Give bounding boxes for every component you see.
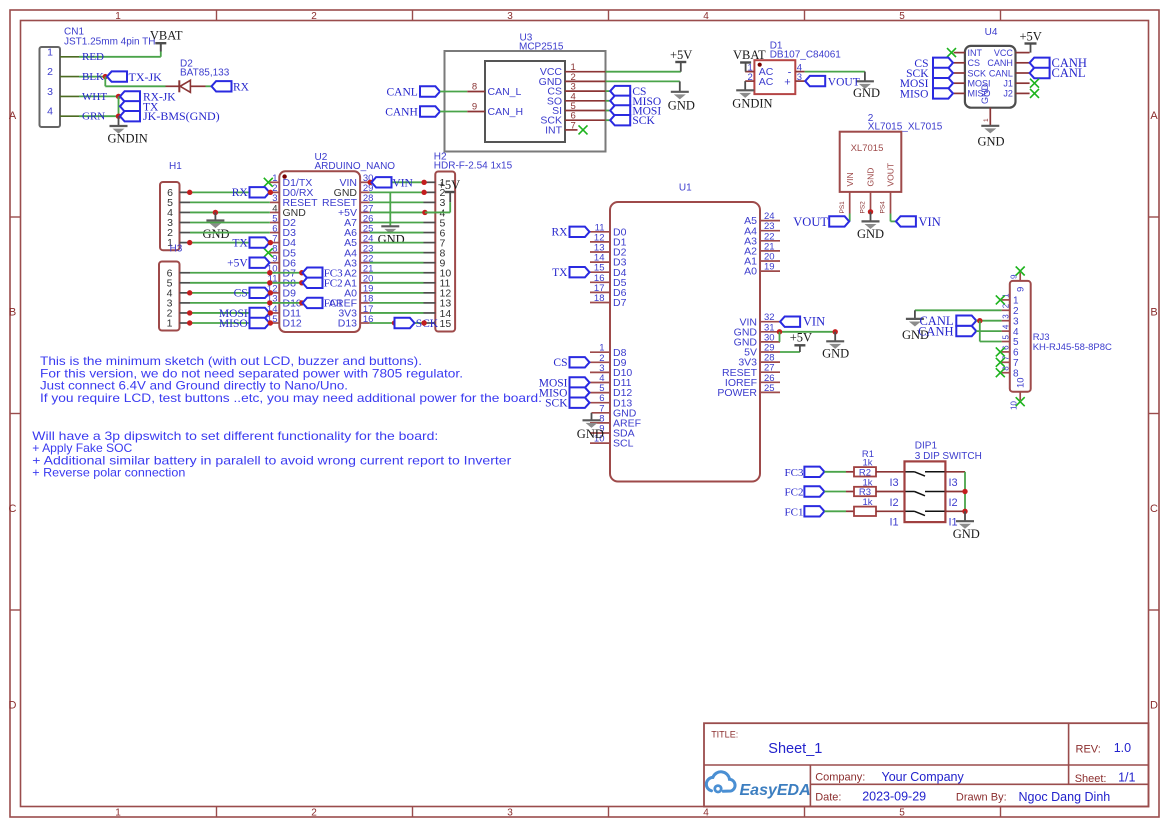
svg-text:1: 1 <box>167 318 173 330</box>
svg-text:CANH: CANH <box>987 58 1013 68</box>
junction GND31 right <box>833 329 838 334</box>
note text block 1 <box>40 354 542 405</box>
wire H1.3 to U2 D2 <box>190 222 270 224</box>
wire H3.6 to U2 D7 and FC3 <box>190 272 303 274</box>
ground GND mid <box>378 192 405 246</box>
svg-text:PS2: PS2 <box>860 201 867 214</box>
svg-text:POWER: POWER <box>717 387 757 399</box>
svg-text:RX: RX <box>552 227 569 239</box>
svg-text:CS: CS <box>968 58 981 68</box>
svg-text:1: 1 <box>47 46 53 58</box>
wire BLK to diode D2 <box>105 77 165 87</box>
net flag TX-JK <box>107 70 162 84</box>
wire H1.6 to U2 D0/RX <box>190 191 270 193</box>
svg-text:TITLE:: TITLE: <box>711 729 738 739</box>
svg-text:TX: TX <box>232 237 248 249</box>
svg-text:J1: J1 <box>1003 79 1013 89</box>
resistor R1 1k <box>846 449 905 479</box>
svg-text:U1: U1 <box>679 182 692 193</box>
svg-text:3: 3 <box>47 86 53 98</box>
svg-text:1: 1 <box>983 118 990 122</box>
no-connect X on U4 J2 <box>1030 89 1039 98</box>
svg-text:TX: TX <box>552 267 568 279</box>
net flag CANL at U3 <box>386 86 440 98</box>
svg-text:I3: I3 <box>890 477 899 489</box>
svg-text:3 DIP SWITCH: 3 DIP SWITCH <box>915 451 982 462</box>
wire H3.2 to U2 D11 <box>190 312 270 314</box>
svg-text:CAN_H: CAN_H <box>488 106 524 118</box>
svg-text:CANH: CANH <box>918 324 953 338</box>
svg-text:19: 19 <box>764 262 775 273</box>
svg-text:3: 3 <box>1013 316 1019 327</box>
wire DIP outputs common <box>964 472 966 512</box>
svg-text:C: C <box>9 503 17 515</box>
svg-text:1: 1 <box>115 11 121 22</box>
junction U2 pin12 <box>268 290 273 295</box>
wire H3.3 to U2 D10 and FC1 <box>190 302 303 304</box>
wire XL7015 VOUT pin to VIN flag <box>891 214 896 222</box>
wire U3 SI <box>606 110 611 112</box>
wire H1.1 to U2 D4 <box>190 242 270 244</box>
svg-text:CANL: CANL <box>1052 66 1086 80</box>
svg-text:VIN: VIN <box>845 172 855 186</box>
ground GND at D1 <box>853 81 880 100</box>
svg-text:5: 5 <box>899 11 905 22</box>
net flag MISO at U2 <box>219 318 270 330</box>
svg-text:DB107_C84061: DB107_C84061 <box>770 50 842 61</box>
svg-text:JK-BMS(GND): JK-BMS(GND) <box>143 109 220 123</box>
power flag VBAT at D1 <box>733 48 766 72</box>
svg-text:I2: I2 <box>890 497 899 509</box>
ground GND right of U1 <box>822 332 849 361</box>
wire WHT to GRN vertical <box>118 96 120 116</box>
no-connect X on RJ3 pin6 <box>996 347 1005 356</box>
svg-text:VOUT: VOUT <box>828 77 860 89</box>
svg-text:18: 18 <box>594 293 605 304</box>
svg-text:U4: U4 <box>985 27 998 38</box>
svg-text:H3: H3 <box>170 244 183 255</box>
no-connect X on RJ3 pin8 <box>996 368 1005 377</box>
bridge rectifier D1 <box>745 41 841 94</box>
power flag +5V at U4 <box>1020 30 1042 53</box>
wire D1 pin4 to GND <box>805 72 865 82</box>
junction FC2 <box>299 280 304 285</box>
wire U1 5V to +5V <box>780 351 800 353</box>
svg-text:BAT85,133: BAT85,133 <box>180 67 230 78</box>
svg-text:GND: GND <box>980 84 990 105</box>
svg-text:MISO: MISO <box>900 88 929 100</box>
net flag VOUT at XL7015 <box>793 215 849 229</box>
svg-text:GND: GND <box>577 427 604 441</box>
svg-text:WHT: WHT <box>82 91 107 103</box>
junction U2 pin7 <box>268 240 273 245</box>
svg-text:I3: I3 <box>949 477 958 489</box>
svg-text:PS1: PS1 <box>839 201 846 214</box>
wire U2 row11 to H2 pin11 <box>370 282 424 284</box>
net flag CS at U2 <box>234 288 270 300</box>
svg-text:MCP2515: MCP2515 <box>519 41 564 52</box>
svg-text:D7: D7 <box>613 297 627 309</box>
junction GND tap <box>213 210 218 215</box>
wire U2 RESET to H2 pin3 <box>370 201 424 203</box>
svg-text:B: B <box>1150 307 1157 319</box>
wire U2 row12 to H2 pin12 <box>370 292 424 294</box>
svg-text:2: 2 <box>748 72 753 83</box>
rj45 connector RJ3 <box>1002 273 1112 411</box>
net flag SCK at H2 <box>395 318 439 330</box>
wire U2 D13 to H2 pin15 <box>370 322 424 324</box>
junction H3 pin1 <box>187 320 192 325</box>
svg-text:4: 4 <box>1013 327 1019 338</box>
net flag VIN at U2 <box>372 177 414 189</box>
wire H1.2 to U2 D3 <box>190 232 270 234</box>
svg-text:VIN: VIN <box>803 315 825 329</box>
svg-text:7: 7 <box>1013 358 1019 369</box>
svg-text:+: + <box>784 77 790 89</box>
net flag SCK at U3 <box>610 115 655 127</box>
svg-text:CAN_L: CAN_L <box>488 86 522 98</box>
ground GND at U1 pin7 <box>577 413 604 441</box>
svg-text:A0: A0 <box>744 266 757 278</box>
svg-text:2023-09-29: 2023-09-29 <box>862 790 926 804</box>
net flag MISO at U3 <box>610 96 661 108</box>
svg-text:1: 1 <box>1013 296 1019 307</box>
resistor R3 1k <box>846 497 905 516</box>
svg-text:2: 2 <box>47 66 53 78</box>
svg-text:TX-JK: TX-JK <box>129 70 163 84</box>
wire U2 row10 to H2 pin10 <box>370 272 424 274</box>
junction on BLK pin <box>103 74 108 79</box>
svg-text:JST1.25mm 4pin TH: JST1.25mm 4pin TH <box>64 37 156 48</box>
net flag VIN at XL7015 <box>896 215 941 229</box>
junction U2 pin15 <box>268 320 273 325</box>
net flag CS at U1 <box>553 357 589 369</box>
net flag RX at U2 <box>232 187 270 199</box>
wire CANH to RJ3 pin4 <box>976 330 1001 332</box>
svg-text:FC1: FC1 <box>324 298 343 310</box>
net flag RX <box>212 81 250 94</box>
svg-text:FC2: FC2 <box>324 278 343 290</box>
svg-text:VBAT: VBAT <box>150 29 183 43</box>
wire GRN <box>79 115 119 117</box>
junction U2 pin13 <box>267 300 272 305</box>
svg-text:10: 10 <box>1015 377 1026 388</box>
svg-text:Sheet_1: Sheet_1 <box>768 741 822 757</box>
wire CANL branch to RJ3 pin5 <box>980 321 1002 342</box>
connector CN1 <box>40 27 156 128</box>
net flag FC3 at R1 <box>785 467 825 479</box>
svg-text:RED: RED <box>82 51 104 63</box>
svg-text:+ Reverse polar connection: + Reverse polar connection <box>32 466 185 480</box>
svg-text:Sheet:: Sheet: <box>1075 773 1107 785</box>
svg-text:XL7015_XL7015: XL7015_XL7015 <box>868 122 943 133</box>
wire U2 GND29 to H2 pin2 <box>370 191 424 193</box>
svg-text:EasyEDA: EasyEDA <box>740 782 811 799</box>
svg-text:1: 1 <box>115 808 121 819</box>
junction H2 pin15 <box>421 320 426 325</box>
wire FC1 to R3 <box>824 510 846 512</box>
svg-text:VIN: VIN <box>392 177 413 189</box>
svg-text:AC: AC <box>759 76 774 88</box>
wire U1 GND31 <box>780 331 836 333</box>
svg-text:8: 8 <box>472 82 477 93</box>
power flag +5V at U1 <box>790 331 812 353</box>
svg-text:3: 3 <box>507 11 513 22</box>
wire U2 VIN to H2 pin1 <box>370 181 424 183</box>
svg-text:BLK: BLK <box>82 71 104 83</box>
junction U2 pin2 <box>268 190 273 195</box>
wire U2 row9 to H2 pin9 <box>370 262 424 264</box>
net flag CS at U4 <box>914 58 953 70</box>
svg-text:4: 4 <box>703 11 709 22</box>
net flag FC2 at R2 <box>785 486 825 498</box>
net flag SCK at U1 <box>545 398 589 410</box>
svg-text:6: 6 <box>1013 348 1019 359</box>
net flag RX at U1 <box>552 227 590 239</box>
svg-text:2: 2 <box>311 808 317 819</box>
svg-text:GND: GND <box>822 347 849 361</box>
svg-text:J2: J2 <box>1003 89 1013 99</box>
svg-text:2: 2 <box>1013 306 1019 317</box>
svg-text:GND: GND <box>866 168 876 187</box>
svg-text:I1: I1 <box>890 517 899 529</box>
net flag MOSI at U4 <box>900 78 953 90</box>
arduino U2 <box>267 152 395 332</box>
wire U2 row13 to H2 pin13 <box>370 302 424 304</box>
connector H1 <box>160 161 190 250</box>
svg-text:GNDIN: GNDIN <box>732 97 772 111</box>
svg-text:+5V: +5V <box>438 178 460 192</box>
net flag TX at U2 <box>232 237 269 249</box>
net flag SCK at U4 <box>906 68 953 80</box>
svg-text:4: 4 <box>703 808 709 819</box>
svg-text:3: 3 <box>507 808 513 819</box>
svg-text:5: 5 <box>1002 335 1011 340</box>
junction H1 pin6 <box>187 190 192 195</box>
net label GRN <box>82 111 105 123</box>
wire WHT <box>79 95 119 97</box>
connector H3 <box>159 244 190 331</box>
svg-text:I2: I2 <box>949 497 958 509</box>
svg-text:A: A <box>1150 110 1158 122</box>
net flag MISO at U1 <box>539 387 590 399</box>
net flag TX <box>120 101 159 113</box>
svg-text:4: 4 <box>1002 324 1011 329</box>
ground GNDIN at CN1 <box>108 116 148 145</box>
svg-text:GND: GND <box>378 233 405 247</box>
wire U2 row7 to H2 pin7 <box>370 242 424 244</box>
regulator 2 XL7015 <box>839 113 943 214</box>
svg-text:XL7015: XL7015 <box>851 143 884 154</box>
svg-text:15: 15 <box>440 318 452 330</box>
svg-text:CANH: CANH <box>385 107 418 119</box>
net flag FC1 at R3 <box>785 506 825 518</box>
svg-text:CANL: CANL <box>386 87 417 99</box>
svg-text:INT: INT <box>545 124 563 136</box>
svg-text:7: 7 <box>571 120 576 131</box>
wire H1.5 to U2 RESET <box>190 201 270 203</box>
wire U2 row6 to H2 pin6 <box>370 232 424 234</box>
junction H3 pin2 <box>187 310 192 315</box>
wire CANL to U3 <box>440 91 467 93</box>
svg-text:SCK: SCK <box>632 115 655 127</box>
net flag MOSI at U3 <box>610 105 661 117</box>
svg-text:D12: D12 <box>283 318 302 330</box>
wire U2 row14 to H2 pin14 <box>370 312 424 314</box>
net flag +5V at U2 D6 <box>227 258 269 270</box>
svg-text:Date:: Date: <box>815 792 841 804</box>
svg-text:MISO: MISO <box>219 318 248 330</box>
wire CANH to U3 <box>440 111 467 113</box>
junction DIP row2 <box>962 489 967 494</box>
svg-text:Ngoc Dang Dinh: Ngoc Dang Dinh <box>1019 790 1111 804</box>
wire U3 GND to ground <box>606 81 680 91</box>
svg-text:3: 3 <box>1002 314 1011 319</box>
svg-text:HDR-F-2.54 1x15: HDR-F-2.54 1x15 <box>434 161 513 172</box>
net flag TX at U1 <box>552 267 589 279</box>
wire XL7015 VIN pin to VOUT flag <box>849 214 851 222</box>
net flag CANH at U4 <box>1030 56 1087 70</box>
svg-text:SCK: SCK <box>545 398 568 410</box>
net flag CANL at U4 <box>1030 66 1086 80</box>
svg-text:2: 2 <box>1002 303 1011 308</box>
ground GND at U3 <box>668 92 695 113</box>
svg-text:25: 25 <box>764 383 775 394</box>
net flag VIN at U1 <box>780 315 825 329</box>
net flag CANH at U3 <box>385 106 440 118</box>
title block texts <box>711 729 1135 804</box>
wire U3 SO <box>606 100 611 102</box>
ground GND at XL7015 <box>857 212 884 241</box>
net flag MOSI at U2 <box>219 308 270 320</box>
title block <box>704 723 1149 806</box>
can controller U3 MCP2515 <box>445 32 606 151</box>
svg-text:SCK: SCK <box>416 318 439 330</box>
svg-text:+5V: +5V <box>227 258 248 270</box>
junction H2 pin2 <box>421 190 426 195</box>
power flag +5V at H2 <box>425 178 460 212</box>
wire FC3 to R1 <box>824 471 846 473</box>
svg-text:1k: 1k <box>862 497 872 508</box>
svg-text:D13: D13 <box>338 318 357 330</box>
net flag MOSI at U1 <box>539 377 590 389</box>
no-connect X on RJ3 pin9 <box>1016 267 1025 276</box>
net flag VOUT at D1 <box>805 76 860 89</box>
svg-text:Company:: Company: <box>815 771 865 783</box>
svg-text:A: A <box>9 110 17 122</box>
svg-text:2: 2 <box>311 11 317 22</box>
svg-text:GND: GND <box>857 227 884 241</box>
junction D13 left <box>392 320 397 325</box>
ground GNDIN at D1 <box>732 81 772 111</box>
svg-text:Your Company: Your Company <box>882 770 965 784</box>
junction DIP row3 <box>962 509 967 514</box>
svg-text:B: B <box>9 307 16 319</box>
svg-text:REV:: REV: <box>1076 743 1101 755</box>
ground GND at H1 <box>203 212 230 240</box>
connector H2 <box>424 152 513 332</box>
ground GND at RJ3 <box>902 319 929 342</box>
can module U4 <box>954 27 1030 125</box>
wire RED to VBAT <box>79 52 161 57</box>
junction on WHT <box>116 94 121 99</box>
net flag JK-BMS(GND) <box>120 109 220 123</box>
junction U2 pin30 <box>368 180 373 185</box>
junction H2 pin1 <box>421 180 426 185</box>
svg-text:CS: CS <box>234 288 248 300</box>
wire U3 SCK <box>606 119 611 121</box>
svg-text:KH-RJ45-58-8P8C: KH-RJ45-58-8P8C <box>1033 342 1112 353</box>
junction CANL <box>977 318 982 323</box>
svg-text:RX: RX <box>233 82 250 94</box>
svg-text:VOUT: VOUT <box>793 215 828 229</box>
no-connect X on RJ3 pin1 <box>996 295 1005 304</box>
net flag CANL at RJ3 <box>919 314 976 328</box>
no-connect X on U4 J1 <box>1030 79 1039 88</box>
svg-text:GND: GND <box>978 134 1005 148</box>
svg-text:FC3: FC3 <box>785 467 804 479</box>
net flag MISO at U4 <box>900 88 953 100</box>
power flag +5V at U3 <box>670 48 692 72</box>
svg-text:1/1: 1/1 <box>1118 771 1135 785</box>
wire RJ3 pin2 to GND <box>915 310 1002 319</box>
wire H3.4 to U2 D9 <box>190 292 270 294</box>
svg-text:VCC: VCC <box>994 48 1014 58</box>
junction H2 pin4 <box>422 210 427 215</box>
wire BLK <box>79 76 105 78</box>
no-connect X on RJ3 pin10 <box>1016 397 1025 406</box>
svg-text:GND: GND <box>668 99 695 113</box>
wire U2 +5V to H2 pin4 <box>370 211 424 213</box>
svg-text:CANL: CANL <box>989 68 1013 78</box>
junction U2 pin10 <box>267 270 272 275</box>
wire U1 GND30 up <box>779 332 781 342</box>
net flag FC1 <box>303 298 343 310</box>
junction FC3 <box>299 270 304 275</box>
junction H3 pin4 <box>187 290 192 295</box>
net flag CS at U3 <box>610 86 646 98</box>
svg-text:D: D <box>1150 700 1158 712</box>
net flag RX-JK <box>120 91 176 103</box>
net flag FC2 <box>303 278 343 290</box>
svg-text:3: 3 <box>797 72 802 83</box>
junction FC1 <box>299 300 304 305</box>
diode D2 <box>166 58 230 92</box>
svg-text:If you require LCD, test butto: If you require LCD, test buttons ..etc, … <box>40 391 542 405</box>
wire H3.5 to U2 D8 and FC2 <box>190 282 303 284</box>
wire U3 CS <box>606 90 611 92</box>
svg-text:FC2: FC2 <box>785 487 804 499</box>
svg-text:9: 9 <box>1015 287 1026 292</box>
net flag CANH at RJ3 <box>918 324 976 338</box>
junction H1 pin1 <box>187 240 192 245</box>
svg-text:GNDIN: GNDIN <box>108 131 148 145</box>
net label BLK <box>82 71 104 83</box>
junction U1 pin31 <box>777 329 782 334</box>
wire U2 row5 to H2 pin5 <box>370 222 424 224</box>
ground GND at DIP1 <box>953 511 980 541</box>
border row letters <box>9 110 1159 712</box>
svg-text:VBAT: VBAT <box>733 48 766 62</box>
svg-text:GND: GND <box>953 527 980 541</box>
svg-text:GRN: GRN <box>82 111 105 123</box>
note text block 2 <box>32 429 511 480</box>
dip switch DIP1 <box>890 441 982 529</box>
wire H3.1 to U2 D12 <box>190 322 270 324</box>
mcu U1 <box>590 182 780 481</box>
svg-text:SCL: SCL <box>613 438 634 450</box>
svg-text:4: 4 <box>47 106 53 118</box>
